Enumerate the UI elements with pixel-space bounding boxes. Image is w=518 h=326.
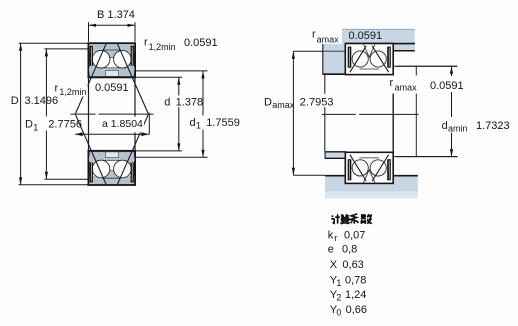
svg-text:0,07: 0,07 <box>344 230 365 242</box>
svg-text:1.7323: 1.7323 <box>476 120 510 132</box>
shaft shoulder strip bottom-left <box>325 152 346 157</box>
bearing side face line right <box>134 77 136 151</box>
svg-text:d: d <box>164 96 170 108</box>
housing bottom band <box>325 176 418 191</box>
label r amax (right) <box>389 76 420 94</box>
svg-text:1.378: 1.378 <box>176 96 204 108</box>
shaft shoulder vertical <box>415 66 417 156</box>
axis centerline right diagram <box>322 113 356 115</box>
svg-text:D: D <box>25 119 33 131</box>
dimension D extension lines <box>19 42 88 44</box>
dimension B extension lines <box>88 22 90 42</box>
bearing top section right <box>345 44 393 75</box>
svg-text:1,2min: 1,2min <box>59 87 86 97</box>
svg-text:0.0591: 0.0591 <box>184 37 218 49</box>
svg-text:D: D <box>264 96 272 108</box>
svg-text:amax: amax <box>395 83 418 93</box>
dimension Damax line <box>292 51 294 175</box>
svg-text:1: 1 <box>336 278 341 288</box>
shaft shoulder line top <box>394 65 458 67</box>
svg-text:2.7756: 2.7756 <box>48 119 82 131</box>
bearing bottom section (mirrored) <box>89 151 136 185</box>
dimension Damax extension lines <box>293 50 322 52</box>
svg-text:amax: amax <box>272 100 295 110</box>
svg-text:amax: amax <box>317 35 340 45</box>
contact line top-right <box>117 43 148 113</box>
svg-text:amin: amin <box>448 124 468 134</box>
svg-text:0,63: 0,63 <box>342 259 363 271</box>
svg-text:X: X <box>330 259 338 271</box>
glyph shu <box>361 214 373 224</box>
dimension d1 line <box>202 71 204 116</box>
glyph ji <box>331 214 340 223</box>
svg-text:D: D <box>11 95 19 107</box>
bearing top section <box>89 43 136 77</box>
svg-text:0.0591: 0.0591 <box>95 82 129 94</box>
svg-text:k: k <box>328 230 334 242</box>
dimension B line <box>89 24 136 26</box>
svg-text:2: 2 <box>336 293 341 303</box>
shaft shoulder line bottom <box>394 156 458 158</box>
svg-text:d: d <box>190 117 196 129</box>
dimension D1 extension lines <box>44 48 88 50</box>
svg-text:r: r <box>312 28 316 40</box>
housing strip top-right <box>393 44 415 50</box>
dimension D1 line <box>45 49 47 117</box>
svg-text:0.0591: 0.0591 <box>349 30 383 42</box>
bearing right side face line <box>392 75 394 152</box>
svg-text:r: r <box>334 233 337 243</box>
svg-text:r: r <box>390 77 394 89</box>
dimension a arrows <box>75 132 83 136</box>
svg-text:r: r <box>144 37 148 49</box>
dimension d line <box>178 77 180 95</box>
contact line top-left <box>76 43 107 113</box>
svg-text:0,78: 0,78 <box>345 274 366 286</box>
glyph suan <box>340 214 349 224</box>
svg-text:1: 1 <box>196 121 201 131</box>
svg-text:1,24: 1,24 <box>345 289 366 301</box>
contact line bottom-right <box>117 115 148 185</box>
svg-text:0.0591: 0.0591 <box>430 80 464 92</box>
bearing side face line left <box>88 77 90 151</box>
glyph xi <box>350 214 358 224</box>
dimension a line <box>75 133 149 135</box>
svg-text:d: d <box>442 120 448 132</box>
dimension D line <box>20 43 22 184</box>
svg-text:0,8: 0,8 <box>342 244 357 256</box>
dimension d extension lines <box>136 76 183 78</box>
dimension damin line <box>451 66 453 76</box>
label r 1,2min (middle) <box>53 83 88 96</box>
svg-text:a 1.8504: a 1.8504 <box>102 118 143 130</box>
svg-text:B 1.374: B 1.374 <box>97 9 135 21</box>
axis centerline left diagram <box>71 113 96 115</box>
svg-text:0: 0 <box>336 308 341 318</box>
svg-text:1.7559: 1.7559 <box>206 117 240 129</box>
bearing bottom section right (mirrored) <box>345 152 393 183</box>
svg-text:3.1496: 3.1496 <box>25 95 59 107</box>
svg-text:1: 1 <box>33 122 38 132</box>
housing mid edge line <box>324 75 326 152</box>
label r amax (top) <box>309 26 342 44</box>
svg-text:e: e <box>328 244 334 256</box>
dimension d1 extension lines <box>134 70 208 72</box>
svg-text:0,66: 0,66 <box>346 304 367 316</box>
header 计算系数 (hand-drawn strokes) <box>331 214 372 224</box>
text mask for a label <box>100 117 145 133</box>
svg-text:r: r <box>55 83 59 95</box>
dimension a right connector <box>148 113 150 134</box>
svg-text:2.7953: 2.7953 <box>300 96 334 108</box>
housing shoulder block top-left <box>323 29 347 73</box>
svg-text:1,2min: 1,2min <box>149 42 176 52</box>
housing top band <box>323 29 415 43</box>
contact line bottom-left <box>76 115 107 185</box>
